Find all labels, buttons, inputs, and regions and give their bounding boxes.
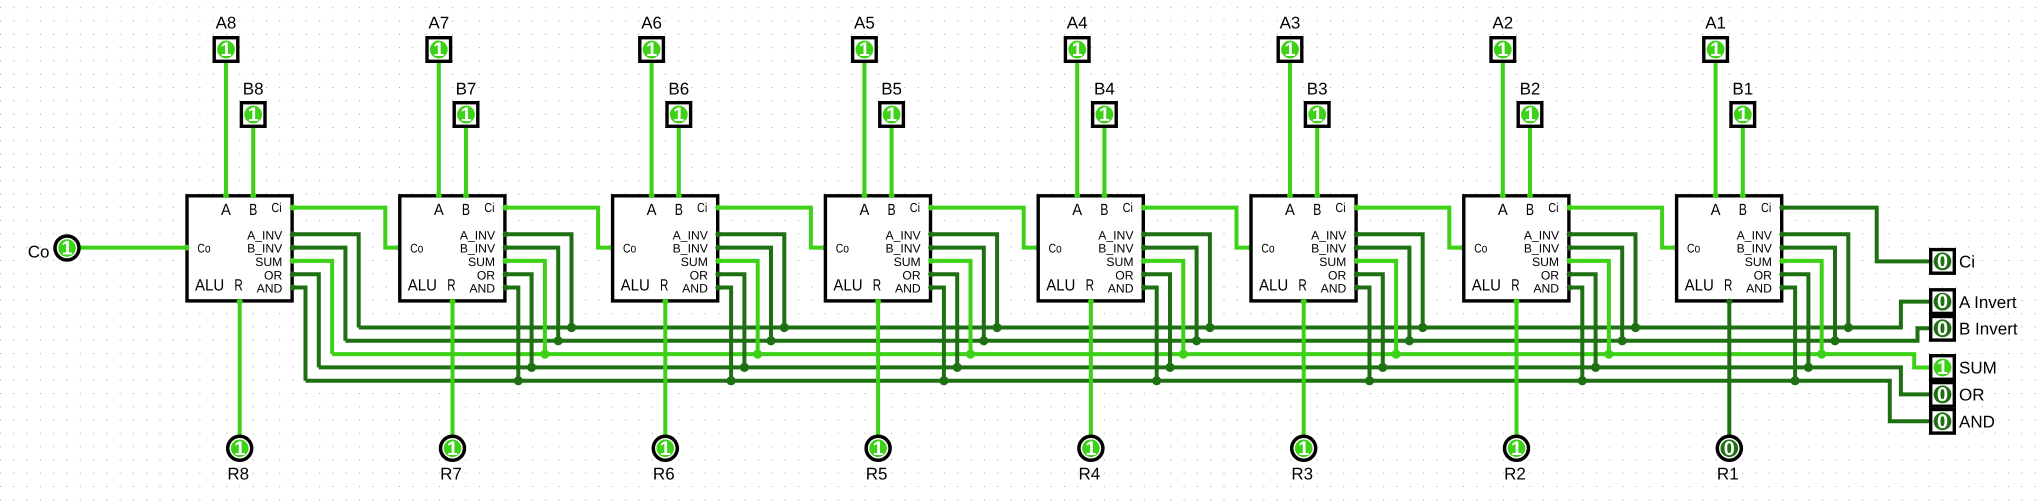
svg-text:A5: A5 <box>854 14 875 33</box>
svg-text:0: 0 <box>1724 438 1735 460</box>
junction A_INV bus / U6 <box>780 323 789 332</box>
pin dot U2.SUM <box>1567 258 1573 264</box>
svg-text:AND: AND <box>1959 413 1995 432</box>
junction AND bus / U6 <box>727 376 736 385</box>
svg-text:0: 0 <box>1937 411 1948 433</box>
pin dot U2.B_INV <box>1567 245 1573 251</box>
pin dot U8.A_INV <box>290 231 296 237</box>
wire U6.SUM tap <box>717 261 757 356</box>
svg-text:B: B <box>1313 201 1321 219</box>
junction A_INV bus / U4 <box>1205 323 1214 332</box>
wire U2.R to R2 <box>1515 301 1519 436</box>
ALU cell U6 (bit 6) <box>613 196 718 301</box>
output pin R4 <box>1079 436 1103 460</box>
svg-text:1: 1 <box>1312 104 1323 126</box>
svg-text:0: 0 <box>1937 318 1948 340</box>
pin dot U4.Co <box>1035 245 1041 251</box>
svg-text:A8: A8 <box>216 14 237 33</box>
input pin B1 <box>1731 103 1755 127</box>
svg-text:1: 1 <box>886 104 897 126</box>
svg-text:B2: B2 <box>1520 79 1541 98</box>
pin dot U1.B <box>1740 192 1746 198</box>
svg-text:Co: Co <box>836 242 849 256</box>
svg-text:B_INV: B_INV <box>1524 242 1560 256</box>
pin dot U5.B_INV <box>928 245 934 251</box>
svg-text:ALU: ALU <box>1685 276 1714 294</box>
wire U1.SUM tap <box>1781 261 1821 356</box>
pin dot U6.A <box>649 192 655 198</box>
svg-text:B_INV: B_INV <box>247 242 283 256</box>
pin dot U4.OR <box>1141 271 1147 277</box>
svg-text:Co: Co <box>623 242 636 256</box>
input pin Ci <box>1931 250 1955 274</box>
wire A2 to U2.A <box>1501 63 1505 196</box>
svg-text:OR: OR <box>1115 268 1133 282</box>
wire U1.AND tap <box>1781 288 1795 383</box>
svg-text:A_INV: A_INV <box>1524 228 1560 242</box>
pin dot U2.AND <box>1567 285 1573 291</box>
svg-text:Ci: Ci <box>1548 200 1558 215</box>
pin dot U1.B_INV <box>1779 245 1785 251</box>
svg-text:A6: A6 <box>641 14 662 33</box>
junction B_INV bus / U7 <box>554 336 563 345</box>
wire U8.R to R8 <box>238 301 242 436</box>
junction SUM bus / U7 <box>540 350 549 359</box>
svg-text:B: B <box>462 201 470 219</box>
svg-text:B1: B1 <box>1732 79 1753 98</box>
svg-text:AND: AND <box>1746 282 1772 296</box>
pin dot U3.OR <box>1354 271 1360 277</box>
input pin OR <box>1931 383 1955 407</box>
svg-text:A: A <box>1711 201 1721 219</box>
ALU cell U8 (bit 8) <box>187 196 292 301</box>
wire U1.A_INV tap <box>1781 234 1848 329</box>
pin dot U6.Ci <box>715 205 721 211</box>
pin dot U1.Ci <box>1779 205 1785 211</box>
svg-text:SUM: SUM <box>468 255 495 269</box>
pin dot U3.R <box>1301 299 1307 305</box>
pin dot U6.R <box>662 299 668 305</box>
svg-text:1: 1 <box>1710 39 1721 61</box>
pin dot U8.Co <box>183 245 189 251</box>
junction B_INV bus / U1 <box>1830 336 1839 345</box>
svg-text:Ci: Ci <box>1959 253 1975 272</box>
pin dot U4.B_INV <box>1141 245 1147 251</box>
wire U4.AND tap <box>1143 288 1157 383</box>
svg-text:1: 1 <box>1937 357 1948 379</box>
svg-text:B_INV: B_INV <box>673 242 709 256</box>
pin dot U4.R <box>1088 299 1094 305</box>
junction OR bus / U1 <box>1804 363 1813 372</box>
svg-text:Ci: Ci <box>697 200 707 215</box>
output pin R6 <box>653 436 677 460</box>
wire U6.OR tap <box>717 274 744 369</box>
svg-text:R8: R8 <box>227 464 249 483</box>
input pin B Invert <box>1931 317 1955 341</box>
wire U7.SUM tap <box>505 261 545 356</box>
junction AND bus / U7 <box>514 376 523 385</box>
wire B4 to U4.B <box>1102 128 1106 196</box>
pin dot U5.SUM <box>928 258 934 264</box>
wire U2.AND tap <box>1569 288 1583 383</box>
pin dot U5.Ci <box>928 205 934 211</box>
wire B6 to U6.B <box>677 128 681 196</box>
svg-text:R: R <box>873 276 881 294</box>
svg-text:OR: OR <box>1328 268 1346 282</box>
pin dot U1.AND <box>1779 285 1785 291</box>
svg-text:B7: B7 <box>456 79 477 98</box>
wire U8.SUM tap to SUM bus <box>292 261 332 354</box>
pin dot U3.B_INV <box>1354 245 1360 251</box>
svg-text:A_INV: A_INV <box>460 228 496 242</box>
pin dot U1.A <box>1713 192 1719 198</box>
svg-text:Co: Co <box>1687 242 1700 256</box>
svg-text:A: A <box>859 201 869 219</box>
pin dot U1.A_INV <box>1779 231 1785 237</box>
wire B2 to U2.B <box>1528 128 1532 196</box>
svg-text:R5: R5 <box>866 464 888 483</box>
wire U3.A_INV tap <box>1356 234 1423 329</box>
svg-text:A_INV: A_INV <box>1098 228 1134 242</box>
svg-text:1: 1 <box>1737 104 1748 126</box>
pin dot U3.AND <box>1354 285 1360 291</box>
pin dot U7.R <box>450 299 456 305</box>
svg-text:B_INV: B_INV <box>1737 242 1773 256</box>
svg-text:0: 0 <box>1937 251 1948 273</box>
pin dot U1.SUM <box>1779 258 1785 264</box>
svg-text:B: B <box>1526 201 1534 219</box>
pin dot U1.Co <box>1673 245 1679 251</box>
wire U8.OR tap to OR bus <box>292 274 319 367</box>
wire U7.B_INV tap <box>505 248 559 343</box>
input pin B2 <box>1518 103 1542 127</box>
svg-text:1: 1 <box>1497 39 1508 61</box>
svg-text:Ci: Ci <box>1335 200 1345 215</box>
wire U3.Ci from U2.Co (carry 2->3) <box>1356 208 1464 248</box>
wire SUM bus <box>332 354 1929 367</box>
pin dot U6.B_INV <box>715 245 721 251</box>
svg-text:Ci: Ci <box>1761 200 1771 215</box>
wire U8.B_INV tap to B_INV bus <box>292 248 346 341</box>
svg-text:R4: R4 <box>1079 464 1101 483</box>
wire Ci pin to U1.Ci <box>1781 208 1929 262</box>
junction OR bus / U5 <box>953 363 962 372</box>
svg-text:R6: R6 <box>653 464 675 483</box>
wire U5.AND tap <box>930 288 944 383</box>
svg-text:1: 1 <box>859 39 870 61</box>
svg-text:B: B <box>1100 201 1108 219</box>
wire U3.AND tap <box>1356 288 1370 383</box>
pin dot U8.OR <box>290 271 296 277</box>
svg-text:OR: OR <box>1754 268 1772 282</box>
wire B5 to U5.B <box>890 128 894 196</box>
svg-text:B_INV: B_INV <box>460 242 496 256</box>
pin dot U3.A <box>1287 192 1293 198</box>
wire U2.B_INV tap <box>1569 248 1623 343</box>
wire U3.B_INV tap <box>1356 248 1410 343</box>
junction A_INV bus / U7 <box>567 323 576 332</box>
svg-text:B5: B5 <box>881 79 902 98</box>
svg-text:1: 1 <box>660 438 671 460</box>
junction OR bus / U4 <box>1165 363 1174 372</box>
junction SUM bus / U4 <box>1179 350 1188 359</box>
svg-text:A: A <box>434 201 444 219</box>
pin dot U3.B <box>1314 192 1320 198</box>
junction AND bus / U1 <box>1791 376 1800 385</box>
svg-text:1: 1 <box>234 438 245 460</box>
svg-text:SUM: SUM <box>1532 255 1559 269</box>
svg-text:R1: R1 <box>1717 464 1739 483</box>
svg-text:SUM: SUM <box>894 255 921 269</box>
pin dot U5.R <box>875 299 881 305</box>
wire U2.Ci from U1.Co (carry 1->2) <box>1569 208 1677 248</box>
wire U7.OR tap <box>505 274 532 369</box>
svg-text:OR: OR <box>477 268 495 282</box>
junction B_INV bus / U2 <box>1618 336 1627 345</box>
pin dot U5.Co <box>822 245 828 251</box>
input pin A4 <box>1065 38 1089 62</box>
svg-text:B_INV: B_INV <box>885 242 921 256</box>
input pin A Invert <box>1931 290 1955 314</box>
wire U5.R to R5 <box>876 301 880 436</box>
wire A8 to U8.A <box>224 63 228 196</box>
wire B7 to U7.B <box>464 128 468 196</box>
pin dot U8.B_INV <box>290 245 296 251</box>
svg-text:1: 1 <box>1524 104 1535 126</box>
pin dot U2.A_INV <box>1567 231 1573 237</box>
svg-text:Ci: Ci <box>484 200 494 215</box>
wire U1.OR tap <box>1781 274 1808 369</box>
pin dot U6.B <box>676 192 682 198</box>
svg-text:OR: OR <box>1959 386 1985 405</box>
input pin A5 <box>853 38 877 62</box>
svg-text:OR: OR <box>690 268 708 282</box>
svg-text:A: A <box>647 201 657 219</box>
wire U6.A_INV tap <box>717 234 784 329</box>
svg-text:0: 0 <box>1937 384 1948 406</box>
svg-text:SUM: SUM <box>1319 255 1346 269</box>
junction SUM bus / U6 <box>753 350 762 359</box>
pin dot U3.A_INV <box>1354 231 1360 237</box>
svg-text:1: 1 <box>1298 438 1309 460</box>
output pin R1 <box>1717 436 1741 460</box>
svg-text:R: R <box>1511 276 1519 294</box>
pin dot U8.R <box>237 299 243 305</box>
wire U3.SUM tap <box>1356 261 1396 356</box>
svg-text:A_INV: A_INV <box>1311 228 1347 242</box>
svg-text:A: A <box>1285 201 1295 219</box>
svg-text:1: 1 <box>220 39 231 61</box>
wire OR bus <box>319 367 1929 394</box>
wire A5 to U5.A <box>862 63 866 196</box>
junction B_INV bus / U4 <box>1192 336 1201 345</box>
junction A_INV bus / U5 <box>993 323 1002 332</box>
junction AND bus / U3 <box>1365 376 1374 385</box>
svg-text:AND: AND <box>895 282 921 296</box>
svg-text:AND: AND <box>469 282 495 296</box>
junction AND bus / U5 <box>939 376 948 385</box>
junction OR bus / U2 <box>1591 363 1600 372</box>
pin dot U8.B <box>250 192 256 198</box>
svg-text:Ci: Ci <box>271 200 281 215</box>
pin dot U4.Ci <box>1141 205 1147 211</box>
svg-text:1: 1 <box>433 39 444 61</box>
svg-text:ALU: ALU <box>1046 276 1075 294</box>
svg-text:A_INV: A_INV <box>1737 228 1773 242</box>
pin dot U8.SUM <box>290 258 296 264</box>
pin dot U6.AND <box>715 285 721 291</box>
pin dot U2.Ci <box>1567 205 1573 211</box>
svg-text:1: 1 <box>673 104 684 126</box>
output pin R2 <box>1505 436 1529 460</box>
wire U4.A_INV tap <box>1143 234 1210 329</box>
svg-text:B3: B3 <box>1307 79 1328 98</box>
junction AND bus / U4 <box>1152 376 1161 385</box>
pin dot U5.A_INV <box>928 231 934 237</box>
junction SUM bus / U5 <box>966 350 975 359</box>
wire B_INV bus <box>345 328 1929 341</box>
svg-text:Co: Co <box>28 242 50 261</box>
input pin B4 <box>1093 103 1117 127</box>
pin dot U6.OR <box>715 271 721 277</box>
wire U5.B_INV tap <box>930 248 984 343</box>
wire U5.Ci from U4.Co (carry 4->5) <box>930 208 1038 248</box>
svg-text:1: 1 <box>61 238 72 260</box>
wire U6.AND tap <box>717 288 731 383</box>
junction OR bus / U3 <box>1378 363 1387 372</box>
wire U4.R to R4 <box>1089 301 1093 436</box>
pin dot U7.Co <box>396 245 402 251</box>
junction SUM bus / U3 <box>1392 350 1401 359</box>
svg-text:A2: A2 <box>1492 14 1513 33</box>
pin dot U7.B_INV <box>503 245 509 251</box>
ALU cell U2 (bit 2) <box>1464 196 1569 301</box>
wire U8.Ci from U7.Co (carry 7->8) <box>292 208 400 248</box>
input pin B6 <box>667 103 691 127</box>
svg-text:AND: AND <box>1533 282 1559 296</box>
ALU cell U1 (bit 1) <box>1677 196 1782 301</box>
svg-text:1: 1 <box>1511 438 1522 460</box>
svg-text:AND: AND <box>682 282 708 296</box>
output pin R5 <box>866 436 890 460</box>
input pin B3 <box>1305 103 1329 127</box>
svg-text:1: 1 <box>1284 39 1295 61</box>
svg-text:0: 0 <box>1937 291 1948 313</box>
wire U4.SUM tap <box>1143 261 1183 356</box>
wire U5.SUM tap <box>930 261 970 356</box>
junction B_INV bus / U3 <box>1405 336 1414 345</box>
svg-text:B_INV: B_INV <box>1098 242 1134 256</box>
pin dot U6.SUM <box>715 258 721 264</box>
pin dot U2.B <box>1527 192 1533 198</box>
junction SUM bus / U2 <box>1604 350 1613 359</box>
svg-text:OR: OR <box>264 268 282 282</box>
svg-text:1: 1 <box>1085 438 1096 460</box>
svg-text:A: A <box>221 201 231 219</box>
svg-text:B_INV: B_INV <box>1311 242 1347 256</box>
wire A4 to U4.A <box>1075 63 1079 196</box>
junction OR bus / U7 <box>527 363 536 372</box>
pin dot U7.AND <box>503 285 509 291</box>
pin dot U7.A <box>436 192 442 198</box>
input pin A7 <box>427 38 451 62</box>
wire B8 to U8.B <box>251 128 255 196</box>
svg-text:SUM: SUM <box>681 255 708 269</box>
output pin R8 <box>228 436 252 460</box>
input pin SUM <box>1931 356 1955 380</box>
svg-text:B: B <box>1739 201 1747 219</box>
svg-text:B Invert: B Invert <box>1959 320 2018 339</box>
wire U4.B_INV tap <box>1143 248 1197 343</box>
wire U1.B_INV tap <box>1781 248 1835 343</box>
wire U7.A_INV tap <box>505 234 572 329</box>
svg-text:R7: R7 <box>440 464 462 483</box>
wire U5.OR tap <box>930 274 957 369</box>
svg-text:SUM: SUM <box>255 255 282 269</box>
pin dot U1.OR <box>1779 271 1785 277</box>
pin dot U8.AND <box>290 285 296 291</box>
pin dot U7.OR <box>503 271 509 277</box>
svg-text:Ci: Ci <box>1123 200 1133 215</box>
wire A_INV bus <box>359 302 1929 328</box>
pin dot U2.R <box>1514 299 1520 305</box>
wire U5.A_INV tap <box>930 234 997 329</box>
wire U3.OR tap <box>1356 274 1383 369</box>
ALU cell U5 (bit 5) <box>825 196 930 301</box>
pin dot U5.B <box>889 192 895 198</box>
input pin B7 <box>454 103 478 127</box>
pin dot U7.SUM <box>503 258 509 264</box>
wire U4.OR tap <box>1143 274 1170 369</box>
svg-text:R2: R2 <box>1504 464 1526 483</box>
svg-text:1: 1 <box>1099 104 1110 126</box>
ALU cell U3 (bit 3) <box>1251 196 1356 301</box>
pin dot U8.A <box>223 192 229 198</box>
wire U2.SUM tap <box>1569 261 1609 356</box>
wire U6.B_INV tap <box>717 248 771 343</box>
junction A_INV bus / U3 <box>1418 323 1427 332</box>
svg-text:Co: Co <box>1474 242 1487 256</box>
svg-text:A7: A7 <box>428 14 449 33</box>
svg-text:AND: AND <box>1321 282 1347 296</box>
svg-text:A1: A1 <box>1705 14 1726 33</box>
svg-text:A_INV: A_INV <box>673 228 709 242</box>
pin dot U4.A_INV <box>1141 231 1147 237</box>
svg-text:SUM: SUM <box>1745 255 1772 269</box>
junction AND bus / U2 <box>1578 376 1587 385</box>
svg-text:Ci: Ci <box>910 200 920 215</box>
svg-text:ALU: ALU <box>195 276 224 294</box>
junction B_INV bus / U6 <box>766 336 775 345</box>
svg-text:B6: B6 <box>668 79 689 98</box>
svg-text:B4: B4 <box>1094 79 1115 98</box>
svg-text:A_INV: A_INV <box>885 228 921 242</box>
svg-text:Co: Co <box>197 242 210 256</box>
wire B3 to U3.B <box>1315 128 1319 196</box>
pin dot U7.B <box>463 192 469 198</box>
input pin A1 <box>1704 38 1728 62</box>
svg-text:ALU: ALU <box>621 276 650 294</box>
svg-text:R: R <box>1298 276 1306 294</box>
svg-text:ALU: ALU <box>1472 276 1501 294</box>
pin dot U4.A <box>1074 192 1080 198</box>
svg-text:A: A <box>1072 201 1082 219</box>
svg-text:R: R <box>660 276 668 294</box>
pin dot U3.SUM <box>1354 258 1360 264</box>
svg-text:A Invert: A Invert <box>1959 293 2017 312</box>
junction A_INV bus / U1 <box>1844 323 1853 332</box>
wire U2.OR tap <box>1569 274 1596 369</box>
